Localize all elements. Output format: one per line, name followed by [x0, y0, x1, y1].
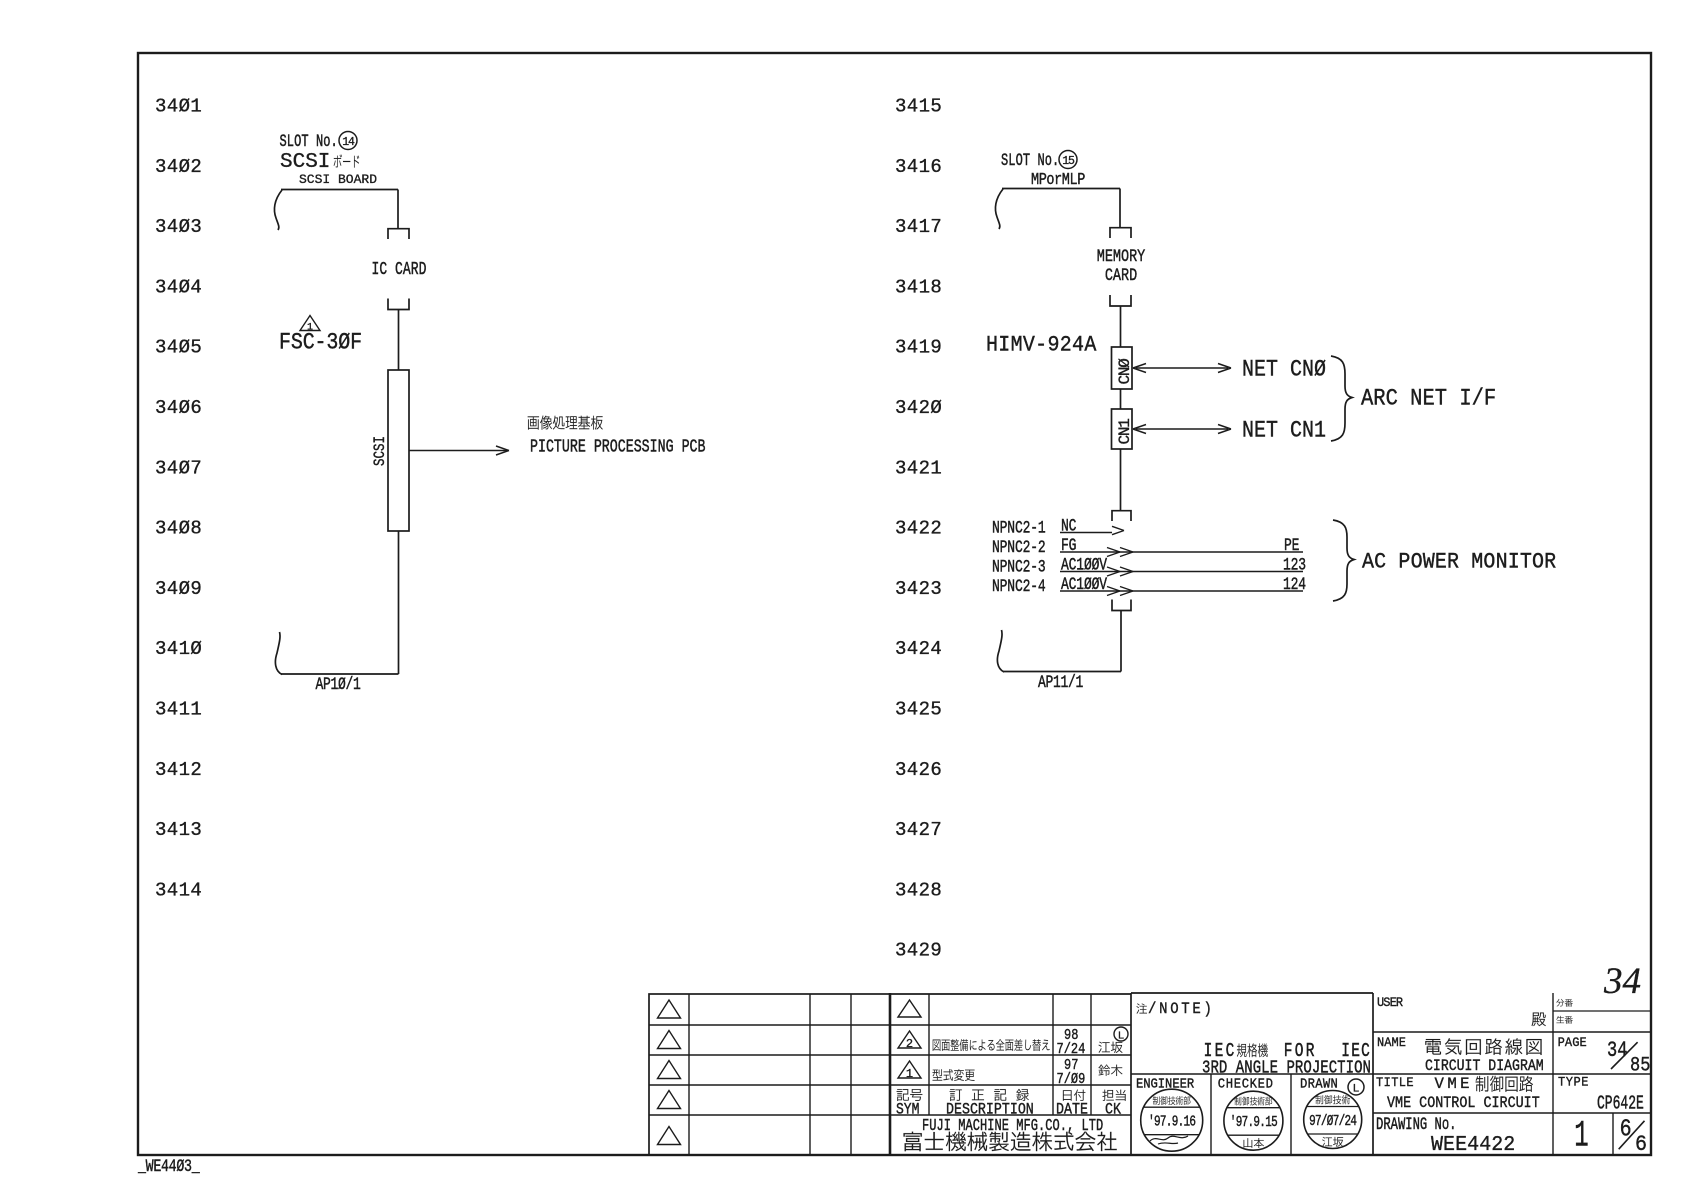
- connector CN0 box: [1112, 347, 1133, 389]
- arrow to picture processing PCB: [409, 450, 507, 452]
- svg-text:'97.9.15: '97.9.15: [1230, 1114, 1277, 1131]
- svg-text:PE: PE: [1284, 535, 1299, 555]
- wire: slot15 vertical drop: [1119, 189, 1121, 228]
- svg-text:IC CARD: IC CARD: [372, 259, 427, 280]
- connector plug top (memory card): [1110, 228, 1131, 238]
- wire: bottom horizontal to AP10/1: [281, 673, 399, 675]
- double arrow NET CN1: [1136, 428, 1228, 430]
- label SLOT No.14: [280, 131, 358, 152]
- svg-text:123: 123: [1283, 555, 1306, 575]
- svg-text:NPNC2-3: NPNC2-3: [992, 557, 1046, 577]
- svg-text:34Ø2: 34Ø2: [155, 156, 202, 178]
- svg-text:VME: VME: [1435, 1075, 1473, 1093]
- svg-text:NPNC2-4: NPNC2-4: [992, 576, 1046, 596]
- label bunban: [1556, 999, 1572, 1007]
- svg-text:1: 1: [906, 1067, 913, 1081]
- svg-text:SYM: SYM: [896, 1102, 919, 1119]
- rev triangle 1 row: [898, 1061, 921, 1078]
- title block: note area frame: [1131, 993, 1373, 1155]
- svg-text:97/Ø7/24: 97/Ø7/24: [1309, 1113, 1356, 1130]
- svg-text:WEE4422: WEE4422: [1431, 1134, 1515, 1158]
- header CK: [1102, 1090, 1125, 1101]
- svg-text:CK: CK: [1105, 1102, 1121, 1119]
- connector socket bottom (IC CARD): [388, 299, 409, 310]
- rev row3 description: [933, 1069, 975, 1081]
- svg-text:1: 1: [1574, 1116, 1588, 1157]
- svg-text:DATE: DATE: [1056, 1102, 1088, 1119]
- svg-text:14: 14: [342, 136, 355, 149]
- connector plug top (IC CARD): [388, 229, 409, 239]
- svg-text:3423: 3423: [895, 578, 942, 600]
- wire: CN1 down to NPNC2 connector: [1120, 449, 1122, 510]
- svg-text:6: 6: [1635, 1132, 1647, 1157]
- header DATE: [1063, 1089, 1086, 1100]
- svg-text:124: 124: [1283, 574, 1306, 594]
- left revision table triangles: [658, 1000, 681, 1145]
- wire NC with arrow: [1060, 532, 1112, 534]
- svg-text:DRAWING No.: DRAWING No.: [1376, 1114, 1457, 1135]
- svg-text:34Ø4: 34Ø4: [155, 276, 202, 298]
- svg-text:34Ø1: 34Ø1: [155, 96, 202, 118]
- svg-text:'97.9.16: '97.9.16: [1148, 1113, 1195, 1130]
- svg-text:34Ø7: 34Ø7: [155, 457, 202, 479]
- label picture processing PCB (Japanese): [528, 415, 603, 429]
- svg-text:3416: 3416: [895, 156, 942, 178]
- rev row2 description: [933, 1039, 1050, 1051]
- connector socket bottom (memory card): [1110, 295, 1131, 306]
- brace ARC NET I/F: [1331, 356, 1352, 441]
- SCSI interface box: [388, 370, 409, 531]
- svg-text:3422: 3422: [895, 518, 942, 540]
- svg-text:AP1Ø/1: AP1Ø/1: [316, 674, 361, 694]
- label SLOT No.15: [1001, 150, 1077, 171]
- svg-text:_WE44Ø3_: _WE44Ø3_: [137, 1156, 200, 1176]
- svg-text:ARC NET I/F: ARC NET I/F: [1361, 386, 1496, 412]
- connector socket bottom (NPNC2): [1112, 600, 1131, 611]
- title block: right info frame: [1373, 993, 1651, 1155]
- svg-text:85: 85: [1630, 1053, 1650, 1077]
- wire: bottom horizontal to AP11/1: [1003, 671, 1121, 673]
- svg-text:TYPE: TYPE: [1558, 1075, 1589, 1090]
- svg-text:3425: 3425: [895, 699, 942, 721]
- svg-text:341Ø: 341Ø: [155, 638, 202, 660]
- connector CN1 box: [1112, 409, 1133, 449]
- break symbol bottom left: [275, 632, 282, 675]
- svg-text:MEMORY: MEMORY: [1097, 246, 1146, 266]
- rev row3 CK: [1098, 1065, 1122, 1076]
- label tono: [1531, 1013, 1545, 1027]
- header row SYM: [897, 1089, 923, 1101]
- line-number column right (3415-3429): [895, 96, 942, 962]
- svg-text:DRAWN: DRAWN: [1300, 1076, 1338, 1092]
- wire: slot15 top horizontal: [1002, 188, 1120, 190]
- svg-text:SLOT No.: SLOT No.: [1001, 150, 1059, 171]
- svg-text:TITLE: TITLE: [1376, 1076, 1414, 1091]
- svg-text:CNØ: CNØ: [1116, 358, 1134, 385]
- svg-text:3412: 3412: [155, 759, 202, 781]
- svg-text:NET CNØ: NET CNØ: [1242, 357, 1326, 383]
- wire: memory card to CN0: [1120, 306, 1122, 347]
- svg-text:/NOTE): /NOTE): [1148, 999, 1215, 1018]
- break symbol bottom right circuit: [997, 630, 1004, 672]
- svg-text:CARD: CARD: [1105, 265, 1137, 285]
- svg-text:3415: 3415: [895, 96, 942, 118]
- circled L row2: [1114, 1027, 1128, 1041]
- svg-text:15: 15: [1062, 155, 1075, 168]
- svg-text:CP642E: CP642E: [1597, 1092, 1644, 1114]
- stamp checked: [1224, 1091, 1283, 1150]
- svg-text:SCSI: SCSI: [280, 151, 330, 174]
- svg-text:34Ø5: 34Ø5: [155, 337, 202, 359]
- svg-text:3414: 3414: [155, 879, 202, 901]
- svg-text:34Ø8: 34Ø8: [155, 518, 202, 540]
- rev triangle row1 (blank): [898, 1000, 921, 1017]
- title block: left revision table: [649, 994, 890, 1155]
- note label: [1136, 1003, 1147, 1013]
- svg-text:SCSI: SCSI: [372, 436, 390, 466]
- svg-text:NPNC2-1: NPNC2-1: [992, 518, 1046, 538]
- svg-text:7/24: 7/24: [1057, 1042, 1086, 1059]
- svg-text:NAME: NAME: [1377, 1036, 1406, 1051]
- svg-text:L: L: [1118, 1030, 1124, 1042]
- svg-text:3419: 3419: [895, 337, 942, 359]
- svg-text:7/Ø9: 7/Ø9: [1057, 1072, 1086, 1089]
- name denki kairo senzu: [1425, 1038, 1541, 1055]
- svg-text:AP11/1: AP11/1: [1038, 672, 1083, 692]
- svg-text:3428: 3428: [895, 879, 942, 901]
- wire: slot14 vertical drop: [397, 190, 399, 229]
- svg-text:SLOT No.: SLOT No.: [280, 131, 338, 152]
- svg-text:3421: 3421: [895, 457, 942, 479]
- stamp engineer: [1141, 1089, 1203, 1151]
- svg-text:PAGE: PAGE: [1558, 1036, 1587, 1051]
- svg-text:CN1: CN1: [1116, 419, 1134, 445]
- svg-text:NET CN1: NET CN1: [1242, 418, 1326, 444]
- circled L drawn: [1348, 1079, 1364, 1095]
- connector plug top (NPNC2): [1112, 511, 1131, 521]
- svg-text:CIRCUIT DIAGRAM: CIRCUIT DIAGRAM: [1425, 1058, 1544, 1075]
- label SCSI board (Japanese): [280, 151, 359, 174]
- svg-text:6: 6: [1620, 1116, 1632, 1143]
- svg-text:USER: USER: [1377, 996, 1404, 1011]
- svg-text:3429: 3429: [895, 940, 942, 962]
- svg-text:3RD ANGLE PROJECTION: 3RD ANGLE PROJECTION: [1202, 1057, 1371, 1079]
- svg-text:34Ø6: 34Ø6: [155, 397, 202, 419]
- svg-text:VME CONTROL CIRCUIT: VME CONTROL CIRCUIT: [1387, 1095, 1540, 1112]
- svg-text:AC POWER MONITOR: AC POWER MONITOR: [1362, 550, 1556, 575]
- note IEC kikakuki FOR IEC: [1204, 1041, 1371, 1063]
- rev row2 CK: [1098, 1042, 1122, 1053]
- break symbol left of slot14 wire: [274, 190, 282, 230]
- svg-text:34: 34: [1607, 1038, 1627, 1063]
- svg-text:34: 34: [1603, 961, 1641, 1002]
- line-number column left (3401-3414): [155, 96, 202, 902]
- svg-text:342Ø: 342Ø: [895, 397, 942, 419]
- break symbol left of slot15 wire: [995, 189, 1003, 229]
- label seiban: [1556, 1016, 1572, 1024]
- svg-text:DESCRIPTION: DESCRIPTION: [946, 1102, 1034, 1119]
- company name kanji: [903, 1132, 1116, 1152]
- svg-text:CHECKED: CHECKED: [1218, 1076, 1274, 1092]
- title VME seigyo kairo: [1435, 1075, 1533, 1093]
- svg-text:3413: 3413: [155, 819, 202, 841]
- title block: right revision table: [890, 993, 1131, 1155]
- svg-text:3418: 3418: [895, 276, 942, 298]
- svg-text:34Ø9: 34Ø9: [155, 578, 202, 600]
- stamp drawn: [1304, 1091, 1362, 1149]
- svg-text:3424: 3424: [895, 638, 942, 660]
- double arrow NET CN0: [1136, 367, 1228, 369]
- svg-text:MPorMLP: MPorMLP: [1031, 172, 1085, 189]
- svg-text:L: L: [1353, 1083, 1359, 1095]
- svg-text:34Ø3: 34Ø3: [155, 216, 202, 238]
- svg-text:2: 2: [906, 1037, 913, 1051]
- svg-text:HIMV-924A: HIMV-924A: [986, 333, 1097, 358]
- svg-text:FSC-3ØF: FSC-3ØF: [279, 330, 362, 356]
- svg-text:3427: 3427: [895, 819, 942, 841]
- wire FG to PE: [1060, 551, 1303, 553]
- warning triangle 1: [300, 316, 320, 331]
- rev triangle 2 row: [898, 1031, 921, 1048]
- wire: IC card to SCSI box: [398, 310, 400, 371]
- svg-text:PICTURE PROCESSING PCB: PICTURE PROCESSING PCB: [530, 437, 706, 458]
- svg-text:3411: 3411: [155, 699, 202, 721]
- wire AC100V to 124: [1060, 590, 1303, 592]
- svg-text:NPNC2-2: NPNC2-2: [992, 537, 1046, 557]
- wire: CN0 to CN1: [1120, 389, 1122, 409]
- wire AC100V to 123: [1060, 571, 1303, 573]
- wire: slot14 top horizontal: [281, 189, 398, 191]
- svg-text:3417: 3417: [895, 216, 942, 238]
- wire: NPNC2 down: [1120, 611, 1122, 672]
- brace AC POWER MONITOR: [1333, 520, 1354, 601]
- wire: SCSI box down: [398, 531, 400, 674]
- header DESCRIPTION: [950, 1089, 1029, 1101]
- svg-text:SCSI BOARD: SCSI BOARD: [299, 172, 377, 187]
- svg-text:3426: 3426: [895, 759, 942, 781]
